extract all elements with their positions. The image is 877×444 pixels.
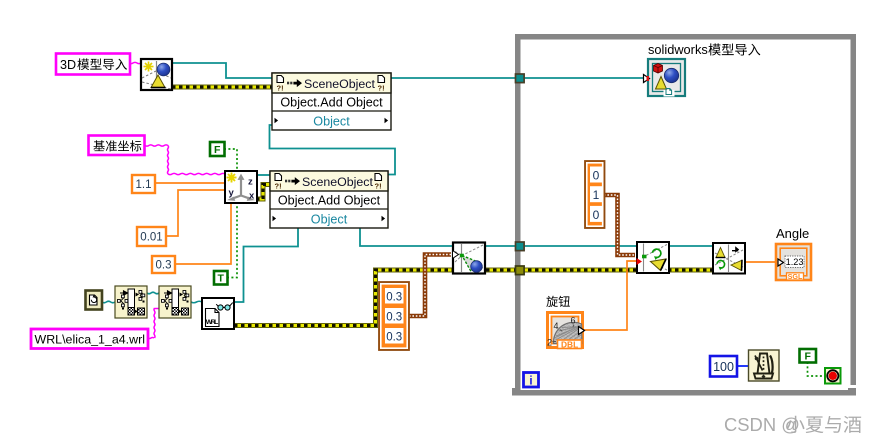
- rotate object node: [637, 242, 669, 273]
- wire: axis array 0 1 0 to rotate node (brown cluster): [604, 195, 635, 255]
- wire: translate node to rotate node through tunnel (teal): [486, 245, 637, 247]
- svg-text:?!: ?!: [375, 182, 382, 191]
- wire: knob to rotate node (orange): [584, 261, 637, 330]
- wire: get-angle to Angle indicator (orange): [745, 261, 776, 263]
- iteration terminal i: [524, 373, 539, 388]
- wire: error cluster transform to SceneObject2: [256, 185, 270, 200]
- solidworks 3D picture indicator terminal: [644, 59, 686, 97]
- svg-text:6: 6: [571, 316, 576, 326]
- svg-text:0: 0: [593, 208, 600, 222]
- wire: path constant chain (teal wavy): [102, 301, 115, 303]
- wire: WRL scene object to SceneObject2 Object param (teal): [234, 228, 298, 302]
- transform / create object node with xyz axes: [225, 171, 257, 203]
- wire: error cluster translate to rotate to get-angle through tunnel: [486, 268, 713, 273]
- get rotation (angle) node: [713, 243, 745, 274]
- svg-text:?!: ?!: [275, 182, 282, 191]
- indicator label "solidworks模型导入": [648, 42, 760, 57]
- svg-text:3D: 3D: [60, 58, 76, 72]
- WRL model loader node (load VRML file): [202, 298, 234, 329]
- wire: error cluster WRL loader to translate node: [234, 270, 453, 326]
- wire: boolean F to loop stop terminal: [808, 362, 826, 376]
- loop tunnel: object reference: [516, 242, 525, 251]
- svg-text:WRL\elica_1_a4.wrl: WRL\elica_1_a4.wrl: [35, 333, 146, 347]
- wire: SceneObject1 Object param from SceneObject2 reference (teal): [270, 125, 396, 175]
- svg-text:1.1: 1.1: [136, 179, 152, 191]
- current VI path constant: [86, 291, 103, 310]
- svg-text:WRL: WRL: [206, 319, 219, 326]
- wire: boolean F to transform node: [224, 149, 237, 170]
- loop condition (stop) terminal: [825, 368, 841, 384]
- svg-text:Object.Add Object: Object.Add Object: [280, 96, 383, 110]
- wire: scale array 0.3 to translate node (brown cluster): [409, 255, 451, 317]
- strip path node: [115, 286, 147, 318]
- svg-text:CSDN @: CSDN @: [724, 414, 800, 435]
- array constant [0.3 0.3 0.3] scale: [379, 282, 409, 350]
- while loop border: [512, 34, 856, 396]
- svg-text:z: z: [248, 177, 253, 188]
- svg-text:0: 0: [593, 169, 600, 183]
- svg-text:y: y: [229, 188, 235, 199]
- svg-text:0.3: 0.3: [386, 332, 402, 344]
- coercion dot at rotate node angle input: [637, 258, 643, 265]
- wire: numeric 0.01 to transform node (orange): [165, 190, 225, 236]
- control label "基准坐标": [89, 136, 145, 156]
- svg-text:Object: Object: [311, 213, 348, 227]
- wire: SceneObject1 reference out to loop tunnel and solidworks terminal (teal): [391, 77, 648, 79]
- svg-text:i: i: [529, 376, 532, 388]
- wire: numeric 1.1 to transform node (orange): [155, 182, 225, 184]
- knob control terminal (DBL): [547, 313, 585, 350]
- invoke node U1 SceneObject (Object.Add Object): [272, 73, 391, 130]
- path/string constant "WRL\elica_1_a4.wrl": [31, 329, 148, 349]
- svg-text:Angle: Angle: [776, 226, 809, 241]
- wire: numeric 0.3 to transform node (orange): [175, 203, 231, 264]
- control label "3D模型导入": [56, 54, 130, 75]
- svg-text:Object: Object: [313, 115, 350, 129]
- wire: error cluster 3D picture to SceneObject1: [172, 85, 272, 90]
- boolean constant T (transform): [214, 271, 228, 285]
- label "旋钮": [546, 296, 570, 307]
- svg-text:1.23: 1.23: [786, 257, 804, 267]
- wire: label to 3D picture terminal (pink): [129, 62, 141, 63]
- wire: 100 ms to wait node (blue): [737, 365, 749, 367]
- 3D picture control terminal (create 3D scene): [141, 59, 172, 90]
- svg-text:4: 4: [554, 321, 559, 331]
- svg-text:SceneObject: SceneObject: [302, 175, 374, 189]
- svg-text:?!: ?!: [378, 84, 385, 93]
- numeric constant 0.3: [152, 256, 175, 273]
- watermark CSDN @小夏与酒: [724, 414, 861, 435]
- wire: wrl filename string to build path (pink): [148, 338, 154, 339]
- numeric constant 1.1: [132, 175, 155, 193]
- wait (ms) metronome node: [749, 350, 780, 381]
- svg-text:DBL: DBL: [561, 340, 578, 350]
- wire: SceneObject2 Object to translate node (teal): [360, 228, 453, 246]
- svg-text:100: 100: [713, 360, 734, 374]
- svg-text:SGL: SGL: [788, 272, 803, 281]
- translate object node: [453, 243, 485, 274]
- svg-text:0.3: 0.3: [386, 312, 402, 324]
- svg-text:T: T: [218, 273, 225, 285]
- svg-text:2: 2: [547, 338, 552, 348]
- svg-text:F: F: [805, 351, 812, 363]
- svg-text:Object.Add Object: Object.Add Object: [278, 194, 381, 208]
- svg-text:0.3: 0.3: [386, 292, 402, 304]
- svg-text:SceneObject: SceneObject: [304, 77, 376, 91]
- wire: boolean T to transform node: [227, 203, 237, 278]
- wire: label to transform node (pink): [145, 145, 168, 146]
- invoke node U2 SceneObject (Object.Add Object): [270, 171, 388, 228]
- svg-text:0.01: 0.01: [140, 232, 162, 244]
- numeric constant 0.01: [137, 227, 166, 246]
- svg-text:x: x: [249, 191, 255, 202]
- loop tunnel: scene reference: [516, 74, 525, 83]
- coercion arrow at translate node input: [453, 251, 459, 259]
- wire: rotate node to get-angle node (teal): [669, 245, 713, 247]
- build path node: [159, 286, 191, 318]
- svg-text:solidworks: solidworks: [648, 42, 708, 57]
- boolean constant F (stop): [800, 349, 817, 363]
- wire: transform reference to SceneObject2 (teal): [257, 174, 270, 176]
- loop tunnel: error cluster: [516, 266, 525, 275]
- array constant [0 1 0] rotation axis: [585, 161, 605, 228]
- numeric constant 100 (wait ms): [710, 356, 737, 377]
- svg-text:F: F: [214, 144, 221, 156]
- wire: 3D picture reference to SceneObject1 (teal): [172, 63, 272, 78]
- svg-text:0.3: 0.3: [156, 260, 172, 272]
- svg-text:?!: ?!: [277, 84, 284, 93]
- Angle numeric indicator (SGL): [776, 244, 811, 281]
- svg-text:1: 1: [593, 188, 600, 202]
- boolean constant F (transform): [210, 142, 225, 156]
